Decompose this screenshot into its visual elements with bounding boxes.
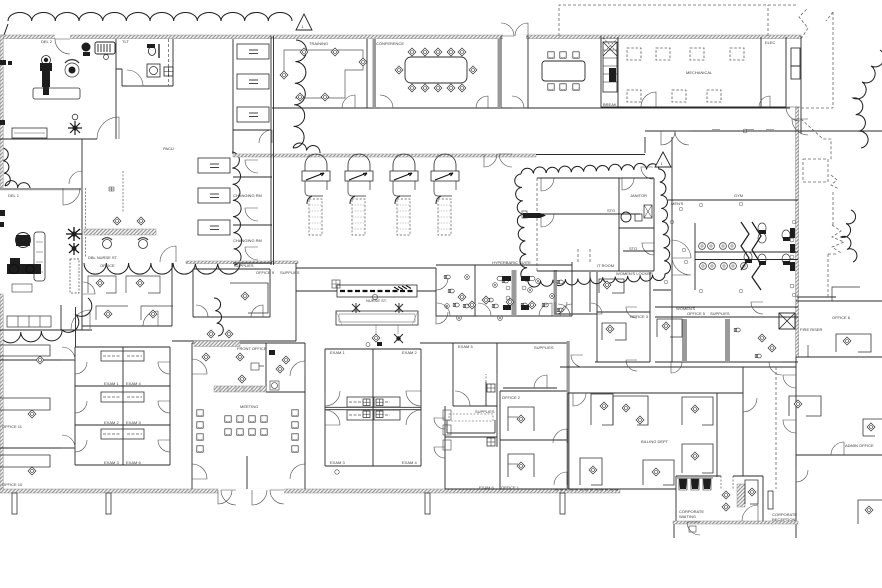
svg-text:MEETING: MEETING [240,404,258,409]
DEL2 stool [65,60,79,77]
office9 desk [230,283,268,313]
svg-text:EXAM 1: EXAM 1 [104,381,119,386]
svg-text:OFFICE 3: OFFICE 3 [630,314,649,319]
svg-text:BILLING DEPT: BILLING DEPT [641,439,669,444]
svg-text:SUPPLIES: SUPPLIES [534,345,554,350]
office6 desk [836,334,871,352]
exterior wall left upper [0,35,3,188]
revision triangle 1 suite [655,152,671,167]
svg-text:TLT: TLT [122,39,129,44]
svg-text:OFFICE: OFFICE [100,263,115,268]
svg-text:EXAM 4: EXAM 4 [402,460,417,465]
exterior wall bottom [0,489,620,493]
svg-text:WAITING: WAITING [679,514,696,519]
exterior wall corporate bottom [673,521,798,524]
svg-text:ELEC: ELEC [765,40,776,45]
supplies2 counter [447,374,497,446]
svg-text:SUPPLIES: SUPPLIES [710,311,730,316]
entry columns [12,491,773,514]
corridor x chairs [66,227,82,255]
svg-text:OFFICE 2: OFFICE 2 [502,395,521,400]
svg-text:FRONT OFFICE: FRONT OFFICE [237,346,267,351]
revision cloud office area [0,298,92,343]
corridor wall hatched mid [233,154,536,157]
DEL2 counter [12,88,80,138]
svg-text:WOMEN'S LOCKER: WOMEN'S LOCKER [616,271,653,276]
poche wall DEL1 top [0,188,82,190]
DEL2 dental chair [40,56,52,96]
corridor cabinets right of exam block [335,342,451,474]
dashed wall DEL1 [86,171,124,258]
svg-text:RECEPTION: RECEPTION [772,517,795,522]
svg-text:OFFICE 5: OFFICE 5 [687,311,706,316]
fire riser box [779,313,795,329]
svg-text:OFFICE 10: OFFICE 10 [2,482,23,487]
mens womens core [695,223,798,290]
svg-text:DBL NURSE ST.: DBL NURSE ST. [88,255,118,260]
svg-text:CHANGING RM: CHANGING RM [233,238,262,243]
toilet room fixtures [147,44,173,77]
elec panels [765,40,800,79]
bedboard boxes [198,44,269,235]
walls hyperbaric suite [296,262,597,362]
revision cloud right edge upper [853,50,882,148]
walls corporate dashed [555,367,776,490]
svg-text:CONFERENCE: CONFERENCE [376,41,404,46]
DEL2 xchair [68,114,82,135]
revision cloud small vertical [214,298,223,336]
left waiting chairs [0,316,51,475]
wall items left [0,60,12,125]
svg-text:EXAM 5: EXAM 5 [458,344,473,349]
exterior wall left lower [0,294,3,490]
svg-text:OFFICE 11: OFFICE 11 [2,424,23,429]
dashed door frame corporate [721,476,733,490]
break shelf ladder [603,38,618,92]
walls changing rooms [233,157,274,265]
corridor wall hatched nurse [186,261,298,264]
walls right wing [796,297,882,455]
svg-text:HYPERBARIC SUITE: HYPERBARIC SUITE [492,260,531,265]
dashed connector [578,247,590,262]
svg-text:FIRE RISER: FIRE RISER [800,327,823,332]
suite dark toilets [497,276,535,310]
svg-text:OFFICE 9: OFFICE 9 [256,270,275,275]
svg-text:MEN'S: MEN'S [671,201,684,206]
svg-text:BREAK: BREAK [603,102,617,107]
poche walls supplies [682,319,687,362]
poche wall conference right [498,39,502,108]
door arcs [55,23,844,535]
admin desks [789,287,882,524]
OR1 furniture [0,210,45,292]
exterior wall right main [796,107,799,357]
conference table [395,48,477,92]
revision cloud top [4,12,292,35]
svg-text:DEL 2: DEL 2 [41,39,53,44]
svg-text:STO: STO [607,208,615,213]
walls exam block left [75,347,170,465]
walls training conference band [272,36,801,134]
svg-text:DEL 1: DEL 1 [8,193,20,198]
walls front office waiting [192,343,305,489]
corridor wall right seg [536,154,645,156]
right wall fixtures [790,228,795,288]
svg-text:GYM: GYM [734,193,743,198]
office3 desks [599,279,682,340]
walls OR1 [0,139,82,330]
walls billing block [560,357,796,538]
corporate waiting [636,416,758,532]
dashed future right wing [801,119,844,297]
svg-text:IT ROOM: IT ROOM [597,263,614,268]
wall opening gaps [55,35,799,494]
mechanical pads [627,48,744,102]
svg-text:ADMIN OFFICE: ADMIN OFFICE [845,443,874,448]
revision cloud changing wall [232,152,242,265]
front office furniture [194,330,290,392]
supplies room fixtures [734,328,776,358]
walls exam5 office2 block [420,343,567,489]
revision cloud OR1 corner [2,148,30,190]
svg-text:PACU: PACU [163,146,174,151]
gym wall marks [712,129,774,131]
svg-text:STO: STO [629,246,637,251]
svg-text:EXAM 2: EXAM 2 [402,350,417,355]
walls DEL2 room [0,39,173,139]
office2 desks [508,407,534,477]
svg-text:TRAINING: TRAINING [309,41,328,46]
supply cabinet [70,259,79,293]
dashed shaft toilet [168,39,170,86]
svg-text:EXAM 6: EXAM 6 [479,485,494,490]
hyperbaric suite fixtures [444,275,563,321]
mens fixtures [664,202,796,297]
poche walls suite [512,270,517,316]
revision cloud right edge lower [841,210,857,262]
walls gym mens womens [645,131,882,362]
svg-text:SUPPLIES: SUPPLIES [475,409,495,414]
svg-text:SUPPLIES: SUPPLIES [234,263,254,268]
revision triangle 1 top [296,14,312,30]
revision cloud PACU vertical [293,40,320,153]
svg-text:EXAM 5: EXAM 5 [126,420,141,425]
isolation suite interior [522,178,654,271]
billing cubicles [580,394,713,485]
svg-text:EXAM 1: EXAM 1 [330,350,345,355]
training layout table [284,50,363,98]
exterior wall top [0,35,801,39]
conference2 table [542,52,585,90]
exam 1-4 tables [347,397,400,420]
svg-text:EXAM 3: EXAM 3 [330,460,345,465]
walls office3 block [595,272,671,362]
svg-text:EXAM 4: EXAM 4 [126,381,141,386]
exam block tables [101,351,144,439]
training chairs [280,48,367,101]
hyperbaric chambers [302,154,459,235]
poche wall training conference [373,39,377,108]
dbl nurse counter [84,187,156,249]
dashed future outline top right [559,5,833,108]
revision cloud isolation suite [515,163,671,287]
walls bedboard top room [233,36,274,157]
poche wall office2 right [567,341,570,489]
walls corridor mid [82,263,296,341]
open office desks [88,276,173,320]
svg-text:EXAM 2: EXAM 2 [104,420,119,425]
svg-text:NURSE ST.: NURSE ST. [366,298,387,303]
walls lower left offices [0,305,92,448]
svg-text:OFFICE 6: OFFICE 6 [832,315,851,320]
svg-text:JANITOR: JANITOR [630,193,647,198]
svg-text:CHANGING RM: CHANGING RM [233,193,262,198]
revision cloud nurse corridor [84,263,240,274]
svg-text:OFFICE 1: OFFICE 1 [501,485,520,490]
svg-text:SUPPLIES: SUPPLIES [280,270,300,275]
walls exam 1-4 block [325,349,421,466]
DEL2 anesthesia [82,42,116,60]
svg-text:EXAM 6: EXAM 6 [126,460,141,465]
svg-text:EXAM 3: EXAM 3 [104,460,119,465]
dashed box right wing [803,159,828,182]
svg-text:MECHANICAL: MECHANICAL [686,70,713,75]
waiting chairs grid [197,410,298,452]
nurse station counters [332,280,418,343]
